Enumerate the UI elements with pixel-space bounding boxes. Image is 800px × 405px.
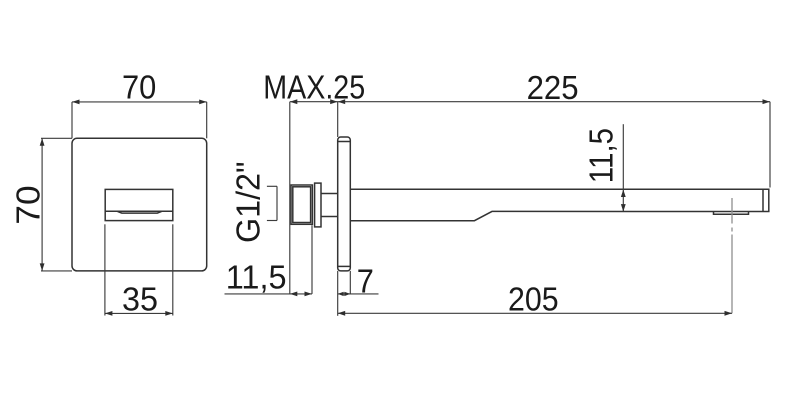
- dim 205: dimension line: [338, 312, 732, 314]
- dim 70 left: bottom extension: [41, 270, 72, 272]
- G1/2 bracket top tick: [267, 185, 277, 187]
- outlet lip: [714, 212, 749, 215]
- neck bottom line: [321, 216, 338, 218]
- G1/2 bracket vertical: [276, 186, 278, 220]
- arrow 205 left: [338, 311, 346, 316]
- svg-text:70: 70: [122, 69, 156, 106]
- arrow MAX.25 right: [330, 99, 338, 104]
- dim 70 left: dimension line: [41, 138, 43, 271]
- flange top cap line: [338, 141, 351, 143]
- arrow 35 left: [105, 311, 113, 316]
- dim 35: left extension: [104, 224, 106, 315]
- neck top line: [321, 193, 338, 195]
- dim 35: right extension: [172, 224, 174, 315]
- extension spout tip: [769, 102, 771, 188]
- nipple collar: [315, 183, 321, 227]
- dim 70 left: top extension: [41, 137, 72, 139]
- arrow 70 top left: [72, 100, 80, 105]
- dim 70 top: dimension line: [72, 101, 207, 103]
- spout tip cap inner line: [762, 189, 764, 211]
- spout face parting line: [105, 210, 173, 212]
- arrow 205 right: [725, 311, 733, 316]
- svg-text:G1/2": G1/2": [230, 162, 267, 244]
- arrow 7 right: [344, 292, 350, 296]
- arrow 70 left down: [40, 263, 45, 271]
- front plate outline: [72, 138, 207, 271]
- dim 7: dimension line: [338, 293, 379, 295]
- arrow 70 top right: [199, 100, 207, 105]
- arrow 225 left: [338, 99, 346, 104]
- arrow 11,5 wall left: [290, 292, 298, 297]
- arrow 35 right: [165, 311, 173, 316]
- wall flange: [338, 137, 351, 271]
- arrow 225 right: [763, 99, 771, 104]
- arrow 11,5 spout down: [621, 204, 626, 212]
- svg-text:205: 205: [508, 280, 559, 317]
- svg-text:35: 35: [122, 281, 158, 318]
- flange bottom cap line: [338, 265, 351, 267]
- dim 70 top: right extension: [206, 102, 208, 138]
- dim 70 top: left extension: [71, 102, 73, 138]
- spout front face: [105, 189, 173, 220]
- svg-text:11,5: 11,5: [583, 128, 620, 183]
- extension nipple left end / 11,5 left: [289, 102, 291, 294]
- svg-text:7: 7: [357, 262, 374, 299]
- svg-text:11,5: 11,5: [226, 259, 287, 296]
- arrow 11,5 wall right: [305, 292, 313, 297]
- arrow MAX.25 left: [290, 99, 298, 104]
- threaded nipple thread relief: [293, 187, 311, 223]
- outlet centerline: [731, 198, 733, 224]
- extension flange front bottom: [349, 271, 351, 294]
- svg-text:MAX.25: MAX.25: [263, 68, 365, 105]
- dim 11,5 wall: dimension line: [225, 293, 313, 295]
- spout body profile: [350, 189, 769, 220]
- extension flange back top: [337, 102, 339, 137]
- extension nipple right / 11,5 right end: [311, 225, 313, 294]
- spout slot lip: [118, 211, 162, 213]
- svg-text:225: 225: [527, 69, 579, 106]
- dim 11,5 spout: dimension line: [622, 124, 624, 211]
- svg-text:70: 70: [9, 185, 46, 224]
- dim MAX.25 + 225: shared dimension line: [290, 101, 770, 103]
- arrow 11,5 spout up: [621, 190, 626, 198]
- arrow 70 left up: [40, 138, 45, 146]
- threaded nipple outer: [291, 185, 312, 224]
- G1/2 bracket bottom tick: [267, 220, 277, 222]
- dim 35: dimension line: [105, 312, 173, 314]
- arrow 7 left: [338, 292, 344, 296]
- extension flange back bottom: [337, 271, 339, 316]
